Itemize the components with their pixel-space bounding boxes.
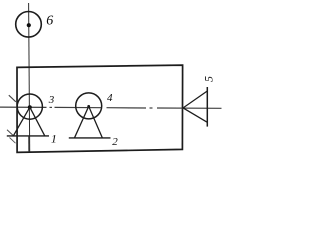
wire centerline dash c — [55, 106, 102, 108]
svg-text:6: 6 — [46, 14, 53, 29]
wire vertical axis line through 6 and 3 — [29, 3, 30, 152]
svg-text:3: 3 — [48, 94, 55, 106]
node circle 4 (disk) — [76, 93, 102, 119]
wire base line of stand 2 — [69, 137, 111, 139]
svg-text:2: 2 — [112, 136, 118, 148]
node triangle stand 1 — [13, 107, 45, 136]
wire base line of stand 1 — [7, 135, 49, 137]
ground hatch ticks lower group on left wall — [7, 130, 14, 136]
svg-text:4: 4 — [107, 92, 113, 104]
wire centerline dash d — [107, 107, 147, 109]
node triangle element 5 (wedge at right) — [183, 91, 207, 122]
node circle 6 (disk with center dot) — [16, 11, 42, 37]
svg-text:1: 1 — [51, 131, 57, 145]
wire centerline dot e — [150, 107, 153, 109]
node triangle stand 2 — [75, 106, 103, 138]
wire base line of element 5 — [206, 87, 208, 127]
wire centerline dash f — [157, 107, 222, 109]
svg-text:5: 5 — [202, 76, 216, 82]
wire horizontal dash-dot centerline segment a — [0, 106, 47, 108]
node housing rectangle — [17, 65, 183, 152]
node circle 3 (disk with center dot) — [17, 94, 42, 119]
wire vertical link below stand 1 — [28, 136, 30, 152]
wire centerline dot b — [50, 106, 53, 108]
ground hatch tick upper on left wall — [9, 95, 16, 102]
